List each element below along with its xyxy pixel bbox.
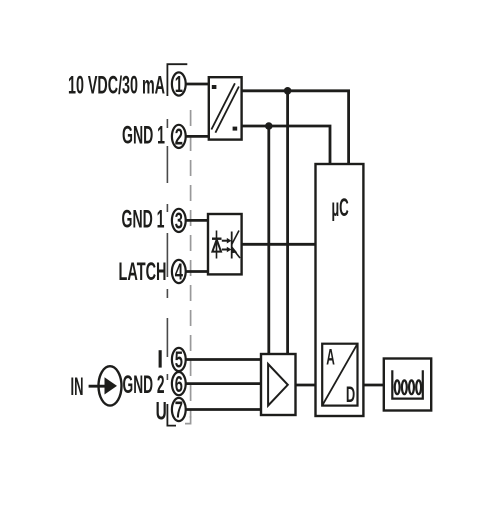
- svg-text:GND 1: GND 1: [122, 122, 165, 150]
- wire A/D output to display: [358, 384, 384, 387]
- light arrow 1: [222, 240, 227, 242]
- wire IN to transducer: [89, 385, 106, 388]
- wire terminal2 to converter: [185, 135, 210, 138]
- amplifier: [261, 354, 296, 415]
- svg-text:A: A: [326, 345, 335, 370]
- terminal 2: [172, 124, 186, 150]
- terminal 7: [172, 397, 186, 423]
- LED cathode bar: [212, 237, 222, 239]
- converter diagonal 2: [215, 87, 239, 133]
- A/D diagonal: [322, 344, 357, 406]
- converter minus mark output side: [233, 127, 238, 131]
- display digit 0 (3rd): [409, 380, 414, 394]
- wire branch to amplifier supply right: [286, 91, 289, 354]
- converter diagonal 1: [211, 83, 235, 129]
- converter minus mark input side: [212, 85, 217, 89]
- connector boundary dashed line left: [166, 119, 168, 380]
- input transducer symbol: [89, 366, 122, 405]
- wire terminal7 to amplifier: [185, 408, 261, 411]
- svg-text:2: 2: [175, 124, 183, 150]
- terminal 4: [172, 259, 186, 285]
- terminal 1: [172, 71, 186, 97]
- transducer arrow: [105, 377, 118, 394]
- svg-text:10 VDC/30 mA: 10 VDC/30 mA: [68, 72, 165, 100]
- transducer ellipse: [99, 366, 122, 405]
- svg-text:GND 1: GND 1: [122, 206, 165, 234]
- terminal 3: [172, 208, 186, 234]
- optocoupler U2: [208, 214, 242, 274]
- wire optocoupler output to uC: [242, 243, 316, 246]
- svg-text:1: 1: [175, 71, 183, 97]
- wire terminal4 to optocoupler: [185, 270, 209, 273]
- phototransistor: [231, 232, 233, 259]
- svg-text:GND 2: GND 2: [123, 371, 165, 399]
- connector boundary dashed line right: [185, 110, 191, 424]
- svg-text:7: 7: [175, 397, 183, 423]
- terminal 5: [172, 347, 186, 373]
- wire converter output top: [242, 91, 349, 164]
- LED triangle: [212, 240, 221, 252]
- svg-text:5: 5: [175, 347, 183, 373]
- svg-text:IN: IN: [71, 373, 84, 401]
- wire branch to amplifier supply left: [267, 126, 270, 354]
- display digit 0 (4th): [416, 380, 421, 394]
- wire terminal5 to amplifier: [185, 358, 261, 361]
- wire amplifier output to A/D: [296, 384, 323, 387]
- wire converter output bottom: [242, 126, 330, 164]
- display digit frame: [392, 370, 423, 398]
- connector bracket top-left: [167, 64, 187, 96]
- svg-text:µC: µC: [332, 194, 349, 222]
- connector bracket bottom-left: [167, 404, 176, 426]
- label I (terminal 5): [159, 350, 162, 367]
- svg-text:D: D: [346, 382, 355, 407]
- amplifier triangle: [268, 364, 288, 406]
- light arrow 2: [222, 249, 227, 251]
- svg-text:U: U: [156, 397, 167, 425]
- wire terminal3 to optocoupler: [185, 219, 209, 222]
- svg-text:LATCH: LATCH: [119, 258, 167, 286]
- display digit 0 (2nd): [402, 380, 407, 394]
- junction dot on bottom output: [265, 122, 273, 130]
- junction dot on top output: [284, 87, 292, 95]
- svg-text:3: 3: [175, 208, 183, 234]
- svg-text:4: 4: [175, 259, 183, 285]
- A/D converter: [322, 344, 357, 407]
- svg-text:6: 6: [175, 371, 183, 397]
- display 0000: [384, 359, 431, 411]
- display digit 0 (1st): [395, 380, 400, 394]
- wire terminal1 to converter: [185, 83, 210, 86]
- LED wire: [216, 231, 218, 259]
- DC/DC converter U1: [209, 77, 242, 139]
- terminal 6: [172, 371, 186, 397]
- microcontroller uC: [316, 164, 364, 416]
- wire terminal6 to amplifier: [185, 382, 261, 385]
